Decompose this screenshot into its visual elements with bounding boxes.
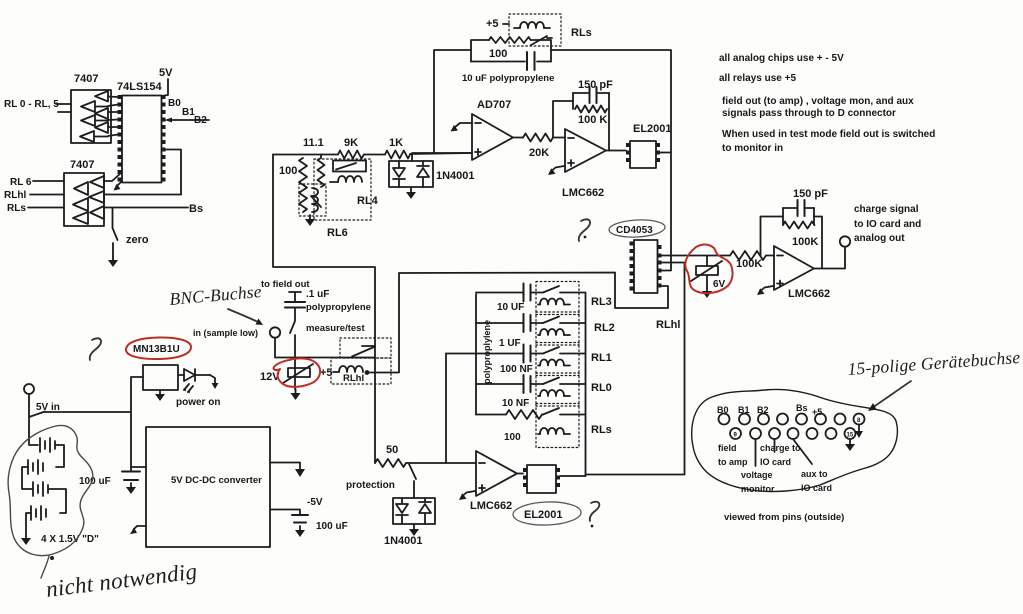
- pin 4: [777, 414, 788, 425]
- battery pack 4 X 1.5V D: [22, 417, 99, 545]
- relay RLs contact: [531, 36, 552, 45]
- arrowhead B2: [165, 118, 172, 123]
- handwritten query mark: [90, 338, 101, 360]
- pin 15: [845, 428, 856, 439]
- svg-text:1N4001: 1N4001: [436, 170, 475, 182]
- switch measure/test: [290, 308, 365, 390]
- svg-text:in (sample low): in (sample low): [193, 328, 258, 338]
- wire: U7 to RLhl bus: [662, 263, 685, 475]
- capacitor 150 pF (LMC662 feedback): [573, 79, 613, 103]
- ground after LED: [210, 375, 219, 389]
- svg-text:protection: protection: [346, 480, 395, 491]
- input arrow at AD707 minus: [451, 125, 459, 132]
- svg-text:measure/test: measure/test: [306, 323, 365, 334]
- svg-text:20K: 20K: [529, 147, 549, 159]
- relay RL6 contact: [311, 196, 321, 207]
- wire: field out stub: [289, 292, 301, 302]
- wire: EL2001 output: [660, 152, 671, 154]
- varistor 12V: [260, 364, 313, 383]
- wire: LMC662 feedback riser: [553, 101, 573, 138]
- buffer U6 EL2001: [630, 123, 672, 168]
- svg-text:Bs: Bs: [189, 203, 203, 215]
- junction dot B2: [162, 118, 166, 122]
- svg-text:RLs: RLs: [571, 27, 592, 39]
- wire: cap bank left bus: [475, 294, 477, 415]
- svg-text:11.1: 11.1: [303, 137, 324, 149]
- wire: LMC662 output to EL2001: [606, 150, 626, 152]
- wire: RL0-5 input stub: [56, 104, 71, 112]
- op-amp U9 LMC662 (output driver): [470, 451, 517, 512]
- wire: feedback left to AD707 input: [434, 50, 471, 153]
- svg-text:MN13B1U: MN13B1U: [133, 344, 180, 355]
- note: D connector signals: [722, 96, 914, 119]
- buffer U1D: [81, 115, 95, 126]
- buffer U1E: [95, 122, 108, 133]
- op-amp U8 LMC662 (second half): [774, 246, 830, 300]
- resistor 20K: [523, 134, 553, 160]
- junction dot RLhl: [365, 370, 370, 375]
- svg-text:50: 50: [386, 444, 398, 456]
- red circle around 6V varistor: [685, 245, 732, 294]
- svg-text:74LS154: 74LS154: [117, 81, 163, 93]
- svg-text:100K: 100K: [736, 258, 762, 270]
- leader line pin 10: [755, 439, 757, 466]
- ground stub converter left: [130, 526, 146, 534]
- capacitor 150 pF (U8 feedback): [783, 188, 828, 216]
- wire: AD707 plus input: [412, 152, 472, 154]
- capacitor 10 UF + row RL3: [476, 284, 543, 314]
- svg-text:all analog chips use + - 5V: all analog chips use + - 5V: [719, 53, 844, 64]
- svg-text:7407: 7407: [70, 159, 94, 171]
- U6 pins: [626, 143, 660, 162]
- svg-text:100 NF: 100 NF: [500, 364, 533, 375]
- buffer U1B: [81, 101, 95, 112]
- relay RLhl dotted boxes: [340, 338, 391, 358]
- wire: +5 output: [270, 463, 300, 471]
- wire: U8 feedback to output: [814, 217, 822, 269]
- svg-text:100 uF: 100 uF: [316, 521, 348, 532]
- wire: main input line: [273, 153, 472, 155]
- svg-text:EL2001: EL2001: [524, 509, 563, 521]
- svg-text:10 uF polypropylene: 10 uF polypropylene: [462, 73, 554, 84]
- svg-text:10 NF: 10 NF: [502, 398, 529, 409]
- wire: AD707 output: [513, 137, 523, 139]
- pin 12: [788, 428, 799, 439]
- svg-text:to field out: to field out: [261, 279, 310, 290]
- svg-text:monitor: monitor: [741, 484, 775, 494]
- svg-text:LMC662: LMC662: [562, 187, 604, 199]
- pin 13: [807, 428, 818, 439]
- wire: RLhl riser to U2: [166, 150, 182, 195]
- terminal charge signal out: [840, 236, 850, 246]
- relay RLhl contact: [352, 346, 375, 357]
- svg-text:4 X 1.5V "D": 4 X 1.5V "D": [41, 534, 99, 545]
- decoder U2 74LS154: [117, 81, 163, 183]
- svg-text:field out (to amp) , voltage m: field out (to amp) , voltage mon, and au…: [722, 96, 914, 107]
- U2 right pins: [162, 95, 166, 182]
- svg-text:100K: 100K: [792, 236, 818, 248]
- pin 1: [719, 414, 730, 425]
- resistor 100 (shunt): [279, 158, 307, 212]
- U2 left pins: [118, 95, 122, 182]
- capacitor .1 uF polypropylene: [285, 289, 371, 313]
- svg-text:RL 0 - RL, 5: RL 0 - RL, 5: [4, 99, 59, 110]
- ground arrow at U8 plus: [757, 286, 773, 295]
- svg-text:EL2001: EL2001: [633, 123, 672, 135]
- svg-text:RLhl: RLhl: [4, 190, 26, 201]
- arrow on +5 output: [295, 469, 305, 477]
- pencil oval around CD4053: [609, 219, 666, 239]
- buffer U10 EL2001: [527, 465, 556, 493]
- pencil oval around EL2001: [513, 501, 582, 526]
- varistor 6V: [691, 256, 726, 291]
- wire: U8 output to terminal: [814, 247, 845, 269]
- wire: 5V to U2: [162, 79, 169, 96]
- handwritten query mark: [590, 502, 600, 528]
- wire: U8 feedback riser: [761, 217, 784, 256]
- U7 left pins: [630, 242, 634, 291]
- ground below battery: [21, 534, 31, 545]
- relay RL3 unit: [536, 282, 612, 315]
- wire: RLhl node to CD4053: [367, 273, 668, 373]
- svg-text:.1 uF: .1 uF: [306, 289, 329, 300]
- wire: B2 line with arrow: [167, 119, 209, 121]
- U10 pins: [523, 468, 560, 487]
- wire: cap bank right bus: [585, 293, 587, 476]
- ground below input cap: [126, 483, 136, 494]
- svg-text:signals pass through to D conn: signals pass through to D connector: [722, 108, 896, 119]
- svg-text:aux to: aux to: [801, 469, 828, 479]
- wire: converter input: [131, 466, 146, 468]
- capacitor 100 uF (-5V): [270, 510, 348, 533]
- pin 10: [750, 428, 761, 439]
- svg-text:voltage: voltage: [741, 470, 773, 480]
- wire: U3 out to U2 bottom: [104, 173, 121, 181]
- U7 right pins: [658, 245, 662, 288]
- relay RL2 unit: [536, 312, 615, 345]
- buffer U1F: [80, 131, 94, 142]
- svg-text:100: 100: [504, 432, 521, 443]
- label charge to IO card: [760, 443, 801, 467]
- analog switch U7 CD4053: [634, 240, 658, 293]
- svg-text:150 pF: 150 pF: [793, 188, 828, 200]
- red circle around MN13B1U: [126, 337, 191, 359]
- svg-text:5V DC-DC converter: 5V DC-DC converter: [171, 475, 262, 486]
- svg-text:CD4053: CD4053: [616, 225, 653, 236]
- relay RLs unit: [536, 404, 612, 448]
- relay RL4 contact box: [333, 161, 366, 172]
- label field to amp: [718, 443, 748, 467]
- arrow to connector blob: [868, 381, 911, 411]
- resistor 100K (to summing amp): [730, 251, 766, 270]
- pin 3: [758, 414, 769, 425]
- resistor 11.1 (vertical): [318, 155, 325, 188]
- relay RL4 dotted box: [314, 159, 371, 220]
- diode pair 1N4001 (protection): [384, 498, 435, 547]
- svg-text:RL3: RL3: [591, 296, 612, 308]
- svg-text:1 UF: 1 UF: [499, 338, 521, 349]
- svg-text:polyproplylene: polyproplylene: [482, 320, 492, 384]
- wire: RL6 input: [33, 180, 64, 182]
- ground below -5V cap: [295, 526, 305, 537]
- ground at U2 bottom: [114, 181, 123, 191]
- svg-text:RL1: RL1: [591, 352, 612, 364]
- svg-text:AD707: AD707: [477, 99, 511, 111]
- relay RL6 coil (vertical): [312, 188, 318, 212]
- resistor 50: [375, 444, 406, 467]
- resistor 9K: [338, 137, 364, 159]
- svg-text:When used in test mode field o: When used in test mode field out is swit…: [722, 129, 935, 140]
- resistor 100K (U8 feedback): [783, 208, 818, 248]
- svg-text:15: 15: [847, 433, 854, 439]
- buffer U3C: [89, 191, 104, 203]
- svg-text:-5V: -5V: [307, 497, 323, 508]
- svg-text:+5: +5: [486, 18, 499, 30]
- relay RL4 coil: [330, 176, 379, 207]
- svg-text:5V: 5V: [159, 67, 173, 79]
- svg-text:100 uF: 100 uF: [79, 476, 111, 487]
- arrow BNC-Buchse to jack: [228, 309, 263, 325]
- buffer U3A: [90, 176, 104, 188]
- capacitor 1 UF + row RL2: [476, 314, 543, 349]
- capacitor 10 NF + row RL0: [476, 375, 543, 409]
- red circle around 12V varistor: [273, 358, 320, 387]
- svg-text:RL 6: RL 6: [10, 177, 32, 188]
- relay RL1 unit: [536, 343, 612, 376]
- ground below zero: [108, 256, 118, 267]
- leader line pin 12: [793, 439, 812, 464]
- svg-text:RLs: RLs: [591, 424, 612, 436]
- pin 8: [854, 414, 865, 425]
- wire: Bs long line: [104, 207, 188, 209]
- resistor 100 + row RLs: [476, 410, 543, 443]
- resistor 1K: [385, 137, 410, 159]
- resistor 100 (feedback) with box: [471, 37, 551, 62]
- pin 2: [739, 414, 750, 425]
- wire: feedback right to output bus: [551, 50, 671, 270]
- ground below RL6 cluster: [305, 215, 315, 226]
- wire: +5 stub: [503, 23, 509, 25]
- relay RLs coil: [514, 22, 550, 28]
- wire: RLhl input: [30, 194, 64, 196]
- label voltage monitor: [741, 470, 775, 494]
- capacitor 100 NF + row RL1: [446, 345, 543, 376]
- pin 9: [730, 428, 741, 439]
- relay RLhl coil: [333, 366, 364, 384]
- switch zero: [113, 208, 149, 257]
- svg-text:power on: power on: [176, 397, 220, 408]
- capacitor 10uF (feedback): [471, 52, 551, 70]
- pin 15 ground: [845, 440, 855, 451]
- pencil loop around battery (nicht notwendig): [8, 425, 93, 578]
- wire: 50 to amp: [406, 462, 476, 464]
- handwritten query near CD4053: [579, 219, 590, 241]
- svg-text:to amp: to amp: [718, 457, 748, 467]
- svg-text:IO card: IO card: [760, 457, 791, 467]
- svg-text:polypropylene: polypropylene: [306, 302, 371, 313]
- svg-text:to monitor in: to monitor in: [722, 143, 783, 154]
- wire: feedback to output node: [608, 109, 610, 151]
- relay RL0 unit: [536, 373, 612, 406]
- wire: left frame down: [273, 155, 375, 464]
- pin 6: [815, 414, 826, 425]
- svg-text:B0: B0: [168, 98, 181, 109]
- svg-text:LMC662: LMC662: [470, 500, 512, 512]
- svg-text:to IO card and: to IO card and: [854, 219, 921, 230]
- svg-text:9K: 9K: [344, 137, 358, 149]
- terminal 5V in: [24, 384, 34, 394]
- wire: BNC to bus: [275, 338, 374, 358]
- pin 11: [769, 428, 780, 439]
- relay RL6 dotted box: [299, 184, 326, 216]
- wire: 100K to LMC662: [766, 255, 774, 257]
- svg-text:100: 100: [489, 48, 507, 60]
- LED power on: [176, 369, 220, 408]
- svg-text:100: 100: [279, 165, 297, 177]
- diode pair 1N4001 (input clamp): [389, 154, 475, 187]
- svg-text:analog out: analog out: [854, 233, 905, 244]
- svg-text:1K: 1K: [389, 137, 403, 149]
- svg-text:charge signal: charge signal: [854, 204, 919, 215]
- converter 5V DC-DC: [146, 427, 270, 547]
- ground arrow at U9 plus: [459, 491, 475, 500]
- label aux to IO card: [801, 469, 832, 493]
- svg-text:viewed from pins (outside): viewed from pins (outside): [724, 512, 844, 523]
- svg-text:all relays use +5: all relays use +5: [719, 73, 796, 84]
- ground below protection diodes: [409, 525, 419, 536]
- regulator MN13B1U: [143, 365, 178, 390]
- buffer U1A: [95, 91, 108, 102]
- resistor 100 K (LMC662 feedback): [573, 93, 609, 126]
- note: test mode: [722, 129, 935, 154]
- pin 7: [835, 414, 846, 425]
- svg-text:RLhl: RLhl: [656, 319, 680, 331]
- buffer U3D: [73, 198, 88, 211]
- svg-text:RL0: RL0: [591, 382, 612, 394]
- wire: AD707 minus stub: [455, 123, 473, 128]
- wire: U10 output to cap bank and RLhl bus: [560, 475, 685, 477]
- pin labels top row: [717, 403, 822, 417]
- svg-text:RL2: RL2: [594, 322, 615, 334]
- BNC jack in (sample low): [193, 327, 280, 338]
- svg-text:7407: 7407: [74, 73, 98, 85]
- svg-text:RL6: RL6: [327, 227, 348, 239]
- svg-text:1N4001: 1N4001: [384, 535, 423, 547]
- ground below 1N4001: [406, 188, 416, 199]
- wire: U7 out to 100K: [662, 255, 731, 257]
- pin 14: [826, 428, 837, 439]
- svg-text:charge to: charge to: [760, 443, 801, 453]
- buffer IC U3 7407 (lower): [64, 159, 104, 226]
- switch 5V in: [29, 394, 45, 417]
- pin 8 arrow: [855, 425, 863, 438]
- wire: EL2001 bus into U7: [662, 270, 672, 272]
- ground below 12V varistor: [291, 389, 301, 400]
- pin 5: [796, 414, 807, 425]
- wire: 100NF row to bottom amp: [445, 354, 447, 464]
- op-amp U4 AD707: [472, 99, 513, 160]
- svg-text:RLs: RLs: [7, 203, 26, 214]
- wire: U9 out: [517, 473, 523, 475]
- wire: 20K to LMC662: [553, 137, 565, 139]
- switch protection: [346, 464, 416, 498]
- svg-text:field: field: [718, 443, 737, 453]
- label charge signal out: [854, 204, 921, 244]
- svg-text:10 UF: 10 UF: [497, 302, 524, 313]
- wire: RLs input: [28, 207, 64, 209]
- leader line pin 11: [774, 439, 776, 452]
- svg-text:RL4: RL4: [357, 195, 379, 207]
- buffer IC U1 7407 (upper): [71, 73, 111, 143]
- buffer U1C: [95, 108, 108, 119]
- svg-text:LMC662: LMC662: [788, 288, 830, 300]
- svg-text:RLhl: RLhl: [343, 373, 364, 384]
- svg-text:Bs: Bs: [796, 403, 808, 413]
- wire: 5V rail: [45, 377, 143, 467]
- buffer U3F: [73, 212, 88, 224]
- svg-text:zero: zero: [126, 234, 149, 246]
- ground below regulator: [155, 390, 165, 401]
- ground below 6V varistor: [702, 287, 712, 298]
- buffer U3E: [90, 206, 104, 219]
- svg-text:100 K: 100 K: [578, 114, 607, 126]
- svg-text:IO card: IO card: [801, 483, 832, 493]
- wire: U1 outputs to U2 pins: [94, 97, 118, 137]
- ground arrow at LMC662 plus: [548, 166, 564, 175]
- capacitor 100 uF (input): [79, 467, 140, 487]
- relay RLs (feedback select) dotted box: [509, 14, 561, 46]
- buffer U3B: [74, 182, 88, 195]
- connector outline (15-pin socket blob): [692, 389, 898, 491]
- wire: RLhl long line: [104, 194, 181, 196]
- op-amp U5 LMC662 (first half): [562, 129, 606, 199]
